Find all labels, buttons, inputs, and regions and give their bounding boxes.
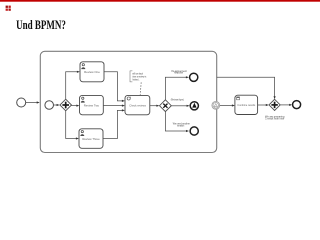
wire: boundary event to Combine results	[220, 104, 235, 106]
svg-text:Review One: Review One	[84, 70, 100, 74]
end event E2 (signal, filled triangle)	[190, 102, 198, 110]
svg-text:will turn back: will turn back	[132, 72, 143, 76]
wire: GW1 up to Review One	[66, 71, 80, 100]
start event (outer)	[17, 98, 26, 107]
end event E1	[190, 73, 198, 81]
svg-text:Review Two: Review Two	[84, 103, 100, 107]
wire: inner start to gateway GW1	[54, 104, 60, 106]
task Combine results	[235, 95, 258, 114]
svg-text:1 result from new: 1 result from new	[265, 117, 284, 120]
task Review Two	[80, 95, 104, 114]
exclusive gateway GW2 (X)	[160, 100, 172, 112]
svg-text:Response: Response	[174, 72, 184, 75]
end event E3	[190, 127, 198, 135]
label We need another iteration	[173, 122, 190, 127]
label It's agreement / Response	[171, 70, 187, 75]
wire: GW2 down to end event E3	[165, 112, 189, 133]
wire: Check reviews to gateway GW2	[150, 105, 160, 107]
parallel gateway GW3	[269, 99, 280, 110]
boundary signal catch event	[212, 101, 220, 109]
svg-text:Und BPMN?: Und BPMN?	[16, 18, 66, 32]
wire: GW2 right to end event E2	[171, 105, 189, 107]
task Check reviews	[125, 95, 150, 114]
wire: subprocess top to gateway GW3	[217, 77, 276, 99]
top red bar	[0, 0, 320, 2]
label We are preparing / 1 result from new	[265, 115, 285, 120]
wire: GW3 to final end event	[280, 104, 292, 106]
wire: GW2 up to end event E1	[165, 76, 189, 100]
wire: Review Two to Check reviews	[103, 105, 125, 107]
wire: Review One to Check reviews	[104, 72, 125, 102]
task Review One	[80, 62, 104, 82]
task Review Three	[79, 129, 103, 149]
subprocess container	[40, 51, 216, 152]
svg-text:Check reviews: Check reviews	[129, 103, 146, 107]
text annotation bracket	[130, 71, 147, 82]
title "Und BPMN?"	[16, 18, 66, 32]
wire: Review Three to Check reviews	[103, 109, 125, 138]
logo (four red squares)	[6, 6, 11, 11]
svg-text:(Reviews Agree): (Reviews Agree)	[171, 98, 184, 101]
wire: Combine results to GW3	[258, 104, 269, 106]
svg-text:finished...: finished...	[132, 77, 139, 81]
parallel gateway GW1	[60, 99, 72, 111]
label Reviews Agree	[171, 98, 184, 101]
svg-text:Review Three: Review Three	[82, 137, 100, 141]
final end event	[293, 101, 301, 109]
wire: GW1 down to Review Three	[66, 111, 79, 140]
association (dashed) annotation to task	[140, 82, 141, 95]
svg-text:iteration: iteration	[177, 124, 185, 127]
start event (inner)	[45, 101, 54, 110]
wire: outer start to subprocess	[26, 101, 40, 103]
wire: GW1 right to Review Two	[72, 105, 80, 107]
svg-text:Combine results: Combine results	[237, 103, 256, 107]
